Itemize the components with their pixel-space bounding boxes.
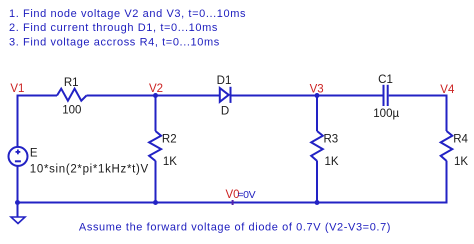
svg-text:10*sin(2*pi*1kHz*t)V: 10*sin(2*pi*1kHz*t)V [30, 164, 149, 176]
wire R4 to bottom [446, 161, 448, 204]
wire R3 to bottom [316, 161, 318, 204]
wire diode to capacitor [231, 95, 382, 97]
svg-text:1K: 1K [163, 156, 177, 168]
junction V2 top [153, 93, 158, 98]
wire R1 to diode [87, 95, 220, 97]
svg-text:=0V: =0V [237, 189, 255, 201]
wire bottom [18, 202, 447, 204]
svg-text:V4: V4 [440, 84, 455, 96]
wire capacitor to V4 [389, 95, 447, 97]
capacitor C1 [384, 85, 388, 106]
resistor R2 [149, 131, 161, 161]
svg-text:R4: R4 [453, 133, 468, 145]
svg-text:100: 100 [62, 104, 81, 116]
resistor R4 [441, 131, 453, 161]
svg-text:R2: R2 [162, 133, 177, 145]
svg-text:E: E [30, 148, 38, 160]
svg-text:2. Find current through D1, t=: 2. Find current through D1, t=0...10ms [9, 22, 218, 34]
svg-text:R1: R1 [64, 77, 79, 89]
diode D1 [220, 87, 231, 103]
svg-text:R3: R3 [324, 133, 339, 145]
svg-text:D1: D1 [217, 75, 232, 87]
junction V3 top [315, 93, 320, 98]
ground [11, 217, 25, 224]
wire V3 vertical top [316, 95, 318, 132]
node marker V0 [232, 200, 234, 205]
wire V2 vertical top [155, 95, 157, 132]
resistor R1 [57, 89, 87, 101]
wire R2 to bottom [155, 161, 157, 204]
wire V1 vertical top [17, 95, 19, 147]
wire V4 vertical top [446, 95, 448, 132]
svg-text:3. Find voltage accross R4, t=: 3. Find voltage accross R4, t=0...10ms [9, 37, 220, 49]
svg-text:100µ: 100µ [373, 108, 399, 120]
svg-text:Assume the forward voltage of: Assume the forward voltage of diode of 0… [79, 222, 391, 234]
junction V2 bottom [153, 200, 158, 205]
junction V3 bottom [315, 200, 320, 205]
source E [9, 147, 28, 166]
svg-text:1K: 1K [454, 156, 468, 168]
wire top V1 to R1 [18, 95, 58, 97]
wire source to bottom [17, 166, 19, 204]
wire ground stem [17, 203, 19, 218]
svg-text:C1: C1 [378, 74, 393, 86]
junction E bottom [15, 200, 20, 205]
svg-text:1. Find node voltage V2 and V3: 1. Find node voltage V2 and V3, t=0...10… [9, 8, 246, 20]
resistor R3 [311, 131, 323, 161]
svg-text:D: D [221, 106, 229, 118]
svg-text:V1: V1 [10, 83, 24, 95]
svg-text:1K: 1K [325, 156, 339, 168]
